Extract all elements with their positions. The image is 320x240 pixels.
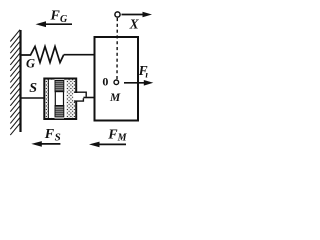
label FG [50,9,69,25]
svg-text:ı: ı [145,71,148,81]
wire damper to mass [83,97,95,99]
wall line [19,30,21,132]
label FM [107,127,127,143]
label Fi [138,63,149,81]
node circle 0 [114,80,119,85]
force arrow FM [89,142,126,148]
svg-text:S: S [29,81,37,96]
svg-text:F: F [50,9,61,24]
svg-text:S: S [55,132,61,144]
wire spring to mass [64,54,95,56]
displacement arrow X [122,12,153,18]
svg-text:X: X [129,17,140,32]
label FS [44,127,61,143]
damper piston [48,79,64,119]
damper housing [44,79,76,120]
svg-text:M: M [109,92,121,104]
force arrow FS [31,141,60,147]
svg-text:F: F [44,127,55,142]
spring G [22,47,64,63]
pivot circle top [115,12,120,17]
mass box M [95,37,139,121]
svg-text:G: G [26,57,35,71]
force arrow Fi [124,80,153,86]
svg-text:G: G [60,14,68,25]
wire wall to damper [22,97,45,99]
wall hatching [10,30,20,135]
svg-text:M: M [117,133,128,144]
force arrow FG [36,21,73,27]
damper rod exit notch [73,92,88,101]
dashed axis line [116,18,118,80]
svg-text:0: 0 [102,75,108,89]
